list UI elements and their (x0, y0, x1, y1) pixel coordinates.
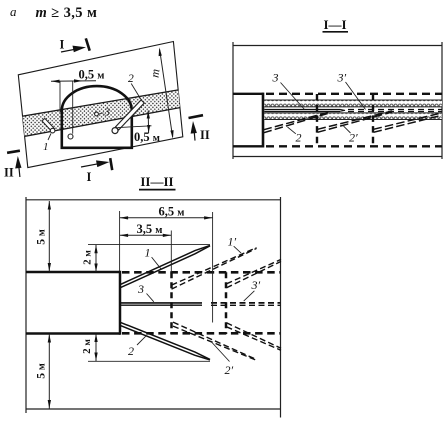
roadway block: bottom wall (26, 332, 120, 335)
future face position 1 (dashed vertical) (170, 272, 173, 334)
svg-text:6,5 м: 6,5 м (159, 205, 185, 219)
borehole 1'' (dashed double line, cut at frame) (227, 259, 282, 287)
dimension 5 m (upper) (36, 201, 52, 272)
dimension 5 m (lower) (36, 334, 52, 409)
drift cross-section (horseshoe profile) (62, 86, 132, 148)
svg-text:2′: 2′ (349, 131, 358, 145)
borehole 2' (inclined dashed double from position 1) (318, 111, 393, 132)
label 2' with leader (344, 126, 359, 145)
borehole 3 circle (perpendicular hole) with label (95, 107, 111, 119)
seam upper strip with rings (264, 100, 442, 107)
roadway roof line (solid then dashed ahead of face) (233, 93, 442, 95)
label 2 with leader (128, 336, 146, 358)
svg-text:3,5 м: 3,5 м (137, 222, 163, 236)
svg-text:2 м: 2 м (81, 339, 93, 354)
dimension 0,5 m (top left) (51, 68, 104, 83)
extension line at borehole 1 tip level (88, 244, 210, 246)
future face position 2 (dashed vertical) (372, 94, 374, 146)
svg-text:II: II (200, 128, 210, 142)
dimension 6,5 m (120, 205, 213, 220)
svg-text:0,5 м: 0,5 м (79, 68, 105, 82)
svg-text:0,5 м: 0,5 м (134, 130, 160, 144)
frame of section II-II (26, 197, 281, 418)
label 3' with leader (337, 71, 366, 110)
svg-text:2′: 2′ (225, 363, 234, 377)
extension line at drift left wall (59, 82, 61, 113)
svg-text:I: I (87, 170, 92, 184)
borehole 1' (dashed double line, tapered tip) (172, 248, 257, 290)
section marker II (right) (189, 115, 210, 142)
extension line from borehole 2 collar (bottom right) (118, 126, 152, 128)
svg-text:5 м: 5 м (36, 229, 48, 245)
borehole 2 collar circle (112, 128, 118, 134)
title II-II underlined (139, 174, 176, 190)
roadway block: top wall (26, 271, 120, 274)
roadway floor line (solid then dashed ahead of face) (233, 145, 442, 147)
svg-text:1: 1 (145, 246, 151, 260)
borehole 2 (inclined dashed double line from face) (264, 112, 331, 133)
svg-text:m ≥ 3,5 м: m ≥ 3,5 м (36, 5, 98, 21)
extension vertical at face for dims (119, 211, 121, 271)
label 2' with leader (212, 343, 234, 378)
svg-text:2: 2 (128, 73, 134, 85)
borehole 2' (dashed double line, tapered tip) (173, 322, 256, 360)
svg-text:3′: 3′ (337, 71, 347, 85)
inclined seam band with stipple fill (10, 88, 190, 139)
label 3 with leader (272, 71, 305, 110)
label 2 with leader (288, 127, 302, 145)
borehole 1 rod crossing seam (left, outside wall) (42, 118, 55, 131)
svg-text:1′: 1′ (228, 235, 237, 249)
label a (figure letter) (10, 4, 17, 19)
extension line at borehole 2 tip level (88, 360, 210, 362)
borehole 2 (solid double line, tapered tip) (121, 322, 211, 360)
roadway block: face (thick vertical) (119, 271, 122, 335)
dimension 2 m (upper) (82, 245, 98, 272)
svg-text:a: a (10, 4, 17, 19)
face (thick vertical) (262, 93, 265, 148)
title m >= 3,5 m (36, 5, 98, 21)
svg-text:II—II: II—II (140, 174, 173, 189)
dimension 3,5 m (120, 222, 172, 237)
frame of section I-I (233, 42, 442, 159)
section marker II (left) (4, 151, 22, 180)
svg-text:2 м: 2 м (82, 250, 94, 265)
label 3 with leader (137, 282, 154, 302)
borehole 3 (horizontal, in seam, solid double line) (264, 109, 345, 111)
future face position 2 (dashed vertical) (225, 272, 228, 334)
section marker I (top) (60, 38, 90, 53)
section marker I (bottom) (81, 158, 112, 184)
borehole 1 collar circle at wall (68, 134, 73, 139)
borehole 3' / 3'' (dashed double line continuation) (348, 110, 442, 112)
label 3' with leader (244, 278, 261, 301)
borehole 1 end circle (50, 128, 55, 133)
future roadway top wall (thick dashed) (122, 271, 281, 274)
extension vertical at 3.5 m (170, 231, 172, 273)
outer rotated parallelogram boundary (18, 42, 183, 168)
seam lower strip with rings (264, 113, 442, 120)
borehole 2 rod crossing seam (right) (116, 100, 145, 130)
svg-text:1: 1 (43, 141, 49, 153)
borehole 2'' (inclined dashed double from position 2) (374, 113, 443, 133)
borehole 1 (solid double line, tapered tip) (121, 245, 211, 287)
label 1' with leader (228, 235, 242, 254)
extension line from 0,5m dim to collar (72, 82, 74, 134)
label 2 with leader (128, 73, 141, 100)
extension vertical at 6.5 m (212, 212, 214, 323)
title I-I underlined (323, 17, 349, 32)
svg-text:m: m (148, 68, 163, 78)
borehole 3 (solid double line from face) (121, 303, 202, 305)
future roadway bottom wall (thick dashed) (122, 332, 281, 335)
borehole 3' (dashed double line) (211, 303, 281, 305)
borehole 2'' (dashed double line, cut at frame) (227, 323, 282, 351)
future face position 1 (dashed vertical) (316, 94, 318, 146)
svg-text:3: 3 (104, 107, 111, 119)
svg-text:3: 3 (272, 71, 279, 85)
label 1 with leader (43, 134, 51, 154)
dimension m (seam normal thickness) along right edge (148, 47, 174, 138)
svg-text:3: 3 (137, 282, 144, 296)
svg-text:I—I: I—I (323, 17, 346, 32)
svg-text:II: II (4, 166, 14, 180)
svg-text:3′: 3′ (251, 278, 261, 292)
svg-text:2: 2 (296, 131, 302, 145)
dimension 0,5 m (bottom right) (134, 111, 160, 145)
svg-text:5 м: 5 м (36, 363, 48, 379)
label 1 with leader (145, 246, 162, 270)
svg-text:2: 2 (128, 344, 134, 358)
dimension 2 m (lower) (81, 334, 98, 362)
svg-text:I: I (60, 38, 65, 52)
